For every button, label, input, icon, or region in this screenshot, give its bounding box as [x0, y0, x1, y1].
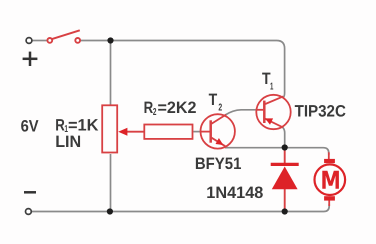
- svg-text:2: 2: [153, 107, 157, 118]
- label -: [24, 191, 36, 194]
- transistor Q T2 BFY51: [201, 114, 235, 148]
- diode D1 1N4148: [271, 147, 299, 211]
- transistor Q T1 TIP32C: [256, 95, 290, 129]
- wire top rail from switch to T1 collector (rounded corner): [80, 41, 284, 98]
- wire T1 emitter down to node: [283, 127, 285, 147]
- label R1=1K: [55, 116, 98, 135]
- battery + terminal: [26, 38, 32, 44]
- junction node at diode anode / bottom rail: [282, 208, 288, 214]
- svg-text:R: R: [144, 99, 154, 117]
- wire R2 to T2 base: [193, 131, 201, 133]
- motor M1: [315, 152, 346, 206]
- wire top rail left segment: [32, 40, 48, 42]
- label R2=2K2: [144, 99, 197, 118]
- resistor R2: [144, 125, 192, 139]
- wire T2 collector to T1 base: [225, 110, 257, 115]
- junction node at bottom rail / R1: [107, 208, 113, 214]
- wire T2 emitter to node and on to motor top (rounded corner): [225, 148, 329, 155]
- label T2: [209, 91, 223, 113]
- svg-text:=2K2: =2K2: [158, 99, 197, 117]
- label +: [23, 52, 38, 66]
- svg-text:1N4148: 1N4148: [206, 184, 263, 202]
- svg-text:2: 2: [218, 102, 222, 113]
- svg-text:LIN: LIN: [55, 133, 81, 151]
- wire from R1 bottom to bottom rail: [110, 154, 112, 212]
- svg-text:1: 1: [270, 81, 274, 92]
- svg-text:6V: 6V: [21, 117, 39, 135]
- svg-text:=1K: =1K: [68, 116, 99, 134]
- wire bottom rail with corner up to motor: [31, 204, 329, 212]
- label T1: [262, 70, 274, 93]
- wire from top junction down to R1 top: [110, 41, 112, 106]
- junction node at T1 emitter / diode / motor: [282, 144, 288, 150]
- svg-text:T: T: [209, 91, 218, 109]
- svg-text:TIP32C: TIP32C: [295, 103, 346, 121]
- junction node at top rail / R1: [107, 37, 113, 43]
- battery - terminal: [26, 209, 32, 215]
- svg-text:BFY51: BFY51: [195, 155, 242, 173]
- potentiometer R1: [102, 105, 143, 152]
- switch S1: [47, 30, 80, 43]
